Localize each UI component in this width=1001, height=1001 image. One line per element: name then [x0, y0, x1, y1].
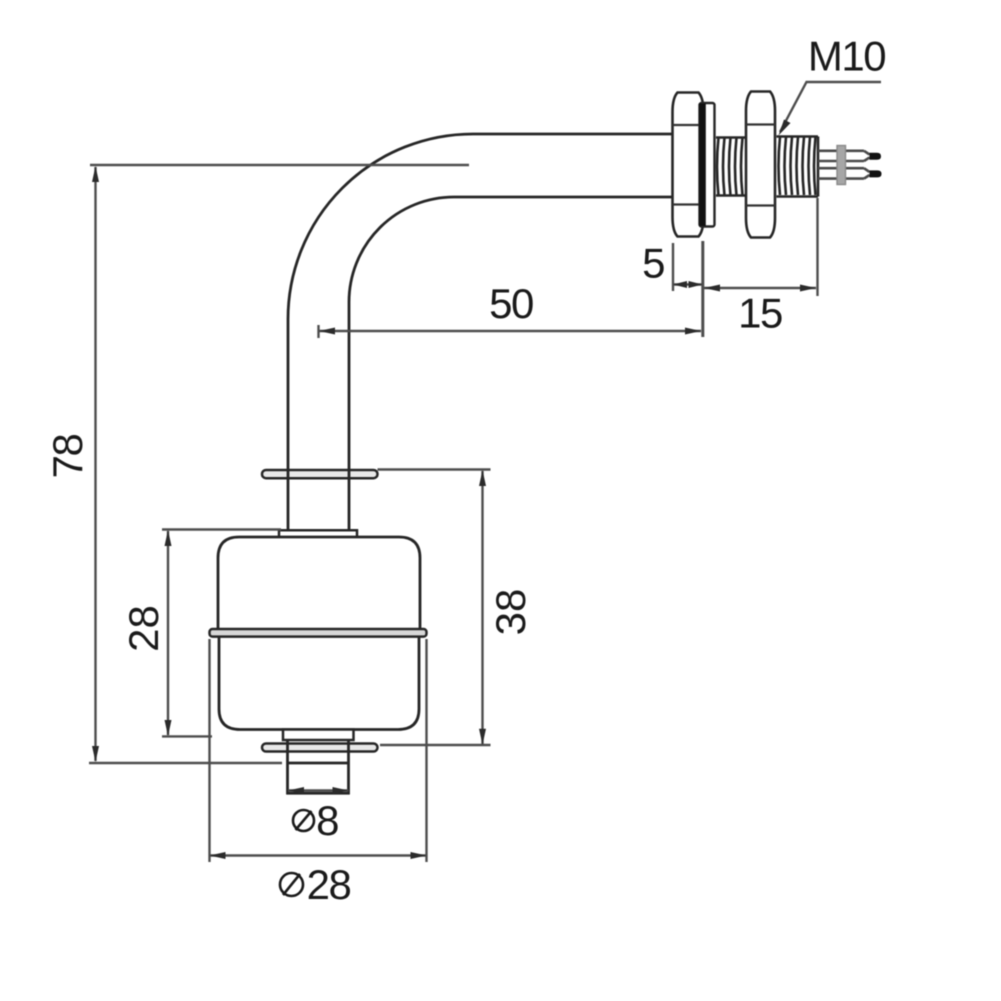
svg-text:8: 8 — [316, 797, 338, 844]
svg-text:5: 5 — [642, 240, 664, 287]
svg-text:15: 15 — [738, 290, 782, 337]
svg-text:28: 28 — [120, 605, 167, 652]
svg-text:28: 28 — [307, 861, 351, 908]
svg-text:M10: M10 — [808, 33, 885, 80]
svg-text:50: 50 — [489, 280, 533, 327]
svg-text:38: 38 — [487, 589, 534, 636]
svg-text:78: 78 — [44, 435, 91, 479]
